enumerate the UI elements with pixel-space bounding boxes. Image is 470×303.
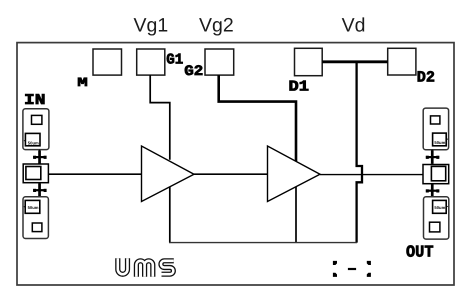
wire Vd rail (pad D1 to pad D2): [322, 60, 388, 63]
svg-text:M: M: [77, 76, 88, 90]
svg-text:G1: G1: [166, 51, 183, 68]
node plus marker OUT upper: [426, 150, 440, 165]
wire RF output (A2 output to OUT pad): [320, 174, 423, 176]
pad D2: [388, 48, 416, 75]
alignment mark top-right: [367, 261, 371, 265]
alignment mark bottom-left: [333, 273, 337, 277]
svg-text:50um: 50um: [28, 140, 39, 145]
pad G2: [205, 49, 234, 75]
svg-text:IN: IN: [24, 92, 46, 109]
svg-text:Vg1: Vg1: [134, 14, 169, 36]
node plus marker IN lower: [33, 183, 47, 197]
wire Vd drop with crossover jog: [357, 62, 362, 243]
wire A1 source to ground rail: [169, 187, 171, 243]
node plus marker IN upper: [33, 150, 47, 164]
pad M: [93, 49, 122, 75]
svg-text:Vg2: Vg2: [199, 14, 234, 36]
alignment mark top-left: [333, 261, 337, 265]
svg-text:50um: 50um: [28, 205, 39, 210]
OUT RF pad: [423, 165, 449, 184]
alignment mark bottom-right: [367, 273, 371, 277]
amplifier A2: [268, 146, 321, 202]
alignment mark center dash: [348, 268, 356, 270]
pad G1: [137, 49, 165, 75]
svg-text:D2: D2: [417, 68, 435, 86]
svg-text:50um: 50um: [434, 205, 445, 210]
IN bottom probe pad group: [23, 197, 48, 239]
svg-text:D1: D1: [289, 78, 310, 95]
svg-text:G2: G2: [184, 64, 203, 80]
wire ground rail: [169, 242, 357, 244]
board outline: [17, 43, 454, 285]
wire G2 bias (pad G2 to amplifier A2 gate): [219, 75, 296, 161]
wire A2 source to ground rail: [295, 187, 297, 243]
svg-text:50um: 50um: [434, 140, 445, 145]
wire G1 bias (pad G1 to amplifier A1 gate): [150, 75, 170, 160]
svg-text:Vd: Vd: [342, 14, 366, 36]
wire interstage (A1 output to A2 input): [194, 173, 268, 175]
amplifier A1: [142, 146, 195, 202]
svg-text:OUT: OUT: [406, 242, 434, 261]
wire RF input (IN pad to amplifier A1): [48, 173, 141, 175]
OUT top probe pad group: [423, 108, 448, 150]
logo UMS: [118, 258, 174, 277]
alignment mark group: [333, 261, 371, 277]
OUT bottom probe pad group: [424, 197, 449, 239]
pad D1: [295, 48, 323, 75]
IN RF pad: [23, 164, 48, 183]
IN top probe pad group: [23, 109, 49, 150]
node plus marker OUT lower: [426, 184, 440, 198]
